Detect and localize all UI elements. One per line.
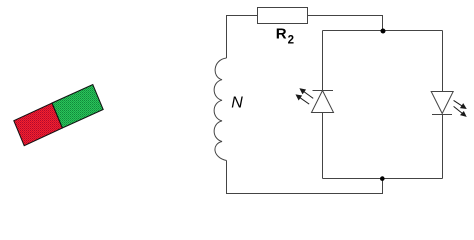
svg-text:R: R [276,26,287,43]
svg-text:N: N [231,95,243,112]
svg-text:2: 2 [288,35,294,47]
